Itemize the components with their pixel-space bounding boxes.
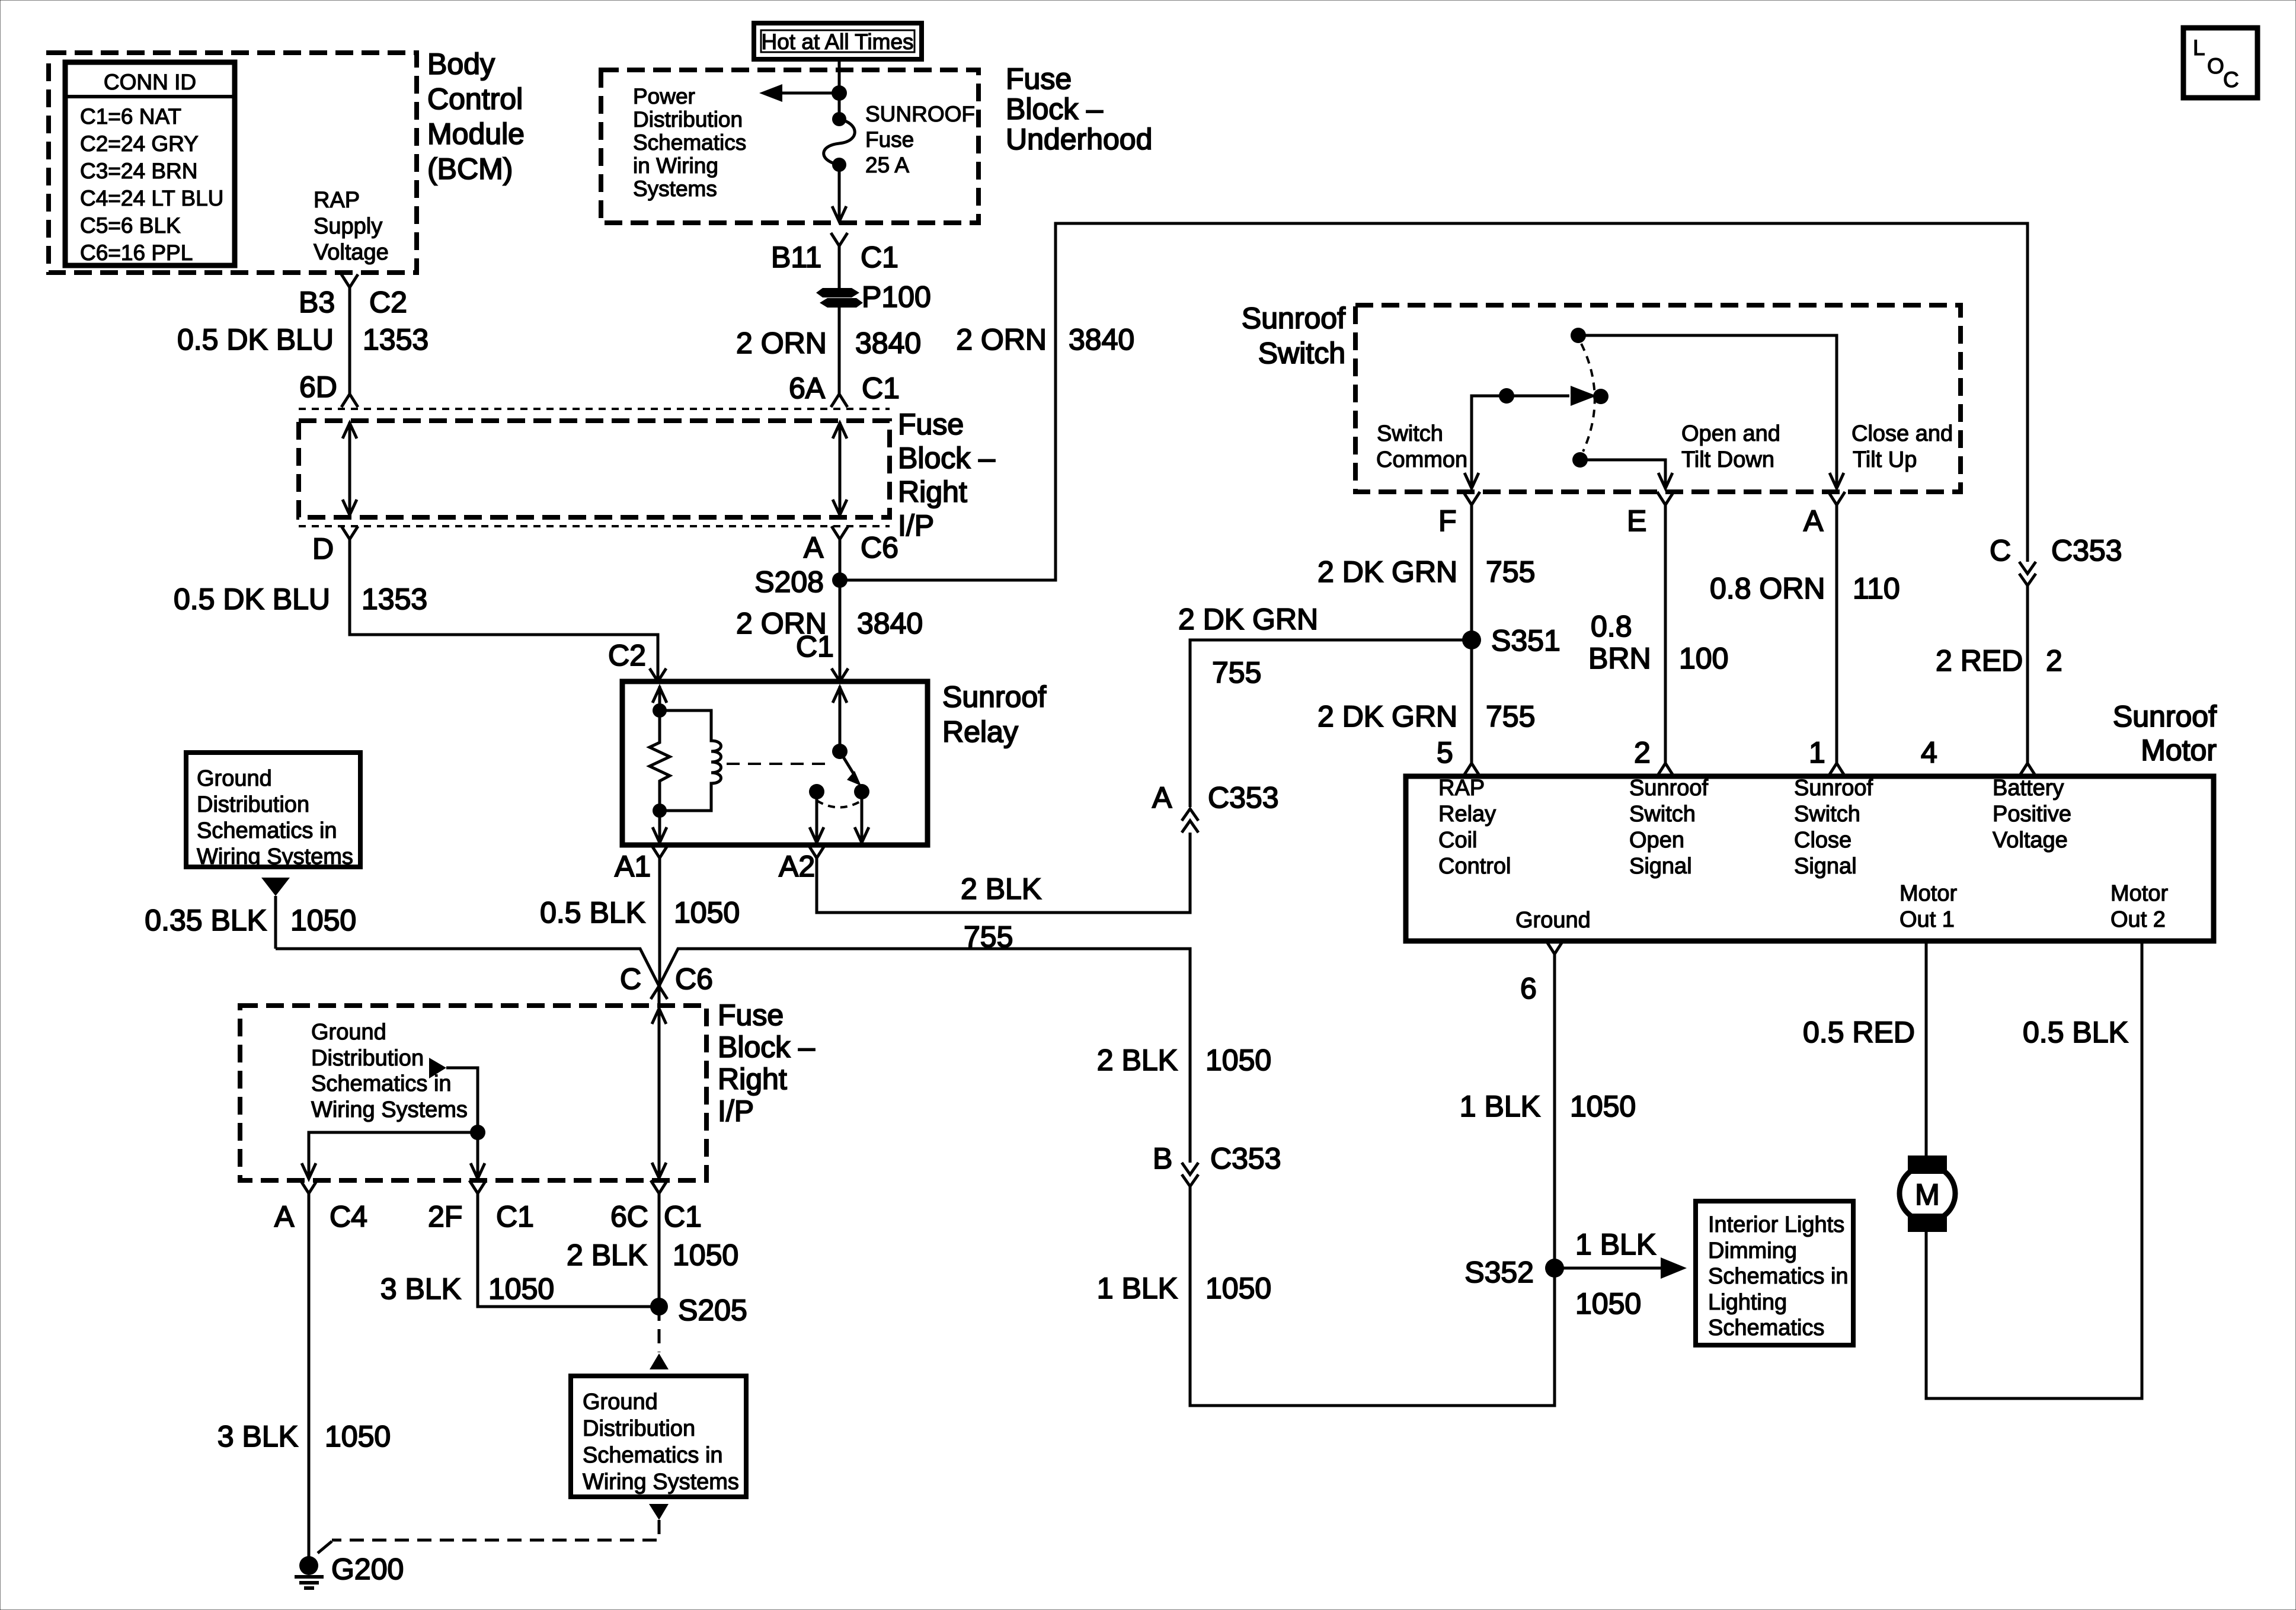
label 1050 [1575,1287,1641,1320]
svg-text:3840: 3840 [1069,323,1134,356]
svg-text:Supply: Supply [314,214,382,239]
svg-text:Tilt Up: Tilt Up [1853,447,1917,472]
svg-text:1050: 1050 [1570,1090,1636,1123]
svg-text:Relay: Relay [942,715,1018,748]
svg-text:C: C [2223,68,2239,92]
svg-text:C1: C1 [796,630,834,663]
svg-text:Close and: Close and [1851,421,1953,446]
wire from Hot box to fuse [838,59,841,119]
connector C353 C double chevron [2019,562,2036,585]
svg-text:2 DK GRN: 2 DK GRN [1318,555,1457,588]
svg-text:I/P: I/P [898,509,934,542]
svg-text:Fuse: Fuse [898,408,964,441]
svg-text:1050: 1050 [488,1272,554,1305]
relay coil [660,710,721,811]
label 2 ORN (branch) [956,323,1047,356]
label 3840 [857,607,923,640]
svg-text:C2: C2 [608,639,646,672]
svg-text:1050: 1050 [290,904,356,937]
svg-text:Relay: Relay [1438,802,1496,827]
connector fork 6C/C1 [651,1180,667,1193]
label C6 [861,531,898,564]
wire C353 C to motor pin 4 [2026,585,2029,763]
svg-text:6A: 6A [789,372,826,405]
CONN ID header label [104,70,196,94]
label A2 [779,850,815,883]
Fuse Block Right I/P title [898,408,995,542]
svg-text:Sunroof: Sunroof [1794,776,1873,801]
relay contact left [809,784,824,799]
label 1050 [674,896,740,929]
label 0.5 BLK [2023,1016,2128,1049]
svg-text:6D: 6D [299,370,337,404]
connector fork B3/C2 at BCM bottom [341,274,358,287]
label 755 [1486,555,1535,588]
label B (C353) [1153,1142,1172,1175]
svg-text:Voltage: Voltage [1993,828,2068,853]
label A (C353) [1152,781,1172,814]
connector fork F [1463,492,1480,505]
fuse block ground bus internal wire (C to 6C) [652,986,666,1179]
wire C353 B down to motor ground return [1190,954,1555,1406]
svg-text:C2: C2 [369,286,407,319]
internal ground wire to 2F [446,1068,485,1179]
Sunroof Switch dashed box [1355,305,1961,492]
label 1050 [290,904,356,937]
svg-text:Module: Module [427,117,525,151]
label 1353 [362,582,427,616]
Sunroof Relay title [942,680,1046,748]
label 755 (S351 branch) [1212,656,1261,689]
Body Control Module (BCM) dashed box [49,53,417,273]
label P100 [862,280,931,313]
svg-text:Positive: Positive [1993,802,2071,827]
svg-text:Common: Common [1376,447,1467,472]
label 1050 [1205,1044,1271,1077]
off-page triangle below lower note box [649,1504,669,1520]
svg-text:Distribution: Distribution [583,1416,695,1441]
svg-text:0.5 RED: 0.5 RED [1803,1016,1915,1049]
svg-text:A: A [1152,781,1172,814]
svg-text:Underhood: Underhood [1006,123,1152,156]
svg-text:Motor: Motor [1900,881,1957,906]
svg-text:Tilt Down: Tilt Down [1681,447,1774,472]
wire A/C4 to G200 [308,1205,311,1557]
label C [1990,534,2011,567]
Ground Distribution note text (upper) [197,766,353,869]
off-page triangle above lower note box [650,1353,669,1369]
label A [274,1200,295,1233]
svg-text:0.35 BLK: 0.35 BLK [145,904,267,937]
svg-text:Schematics in: Schematics in [197,818,337,843]
svg-text:C1: C1 [496,1200,534,1233]
svg-text:0.5 DK BLU: 0.5 DK BLU [177,323,334,356]
label 3 BLK [218,1420,298,1453]
label C353 [1210,1142,1281,1175]
svg-text:2: 2 [1634,736,1651,769]
label C353 [2051,534,2122,567]
LOC letters [2193,36,2239,92]
connector fork 6D at fuse block top [341,394,358,407]
svg-text:A2: A2 [779,850,815,883]
label 1050 [325,1420,391,1453]
svg-text:3840: 3840 [857,607,923,640]
svg-text:Fuse: Fuse [865,127,914,152]
CONN ID table box [65,62,235,265]
svg-text:RAP: RAP [1438,776,1485,801]
label 2 [1634,736,1651,769]
junction S352 [1545,1259,1564,1278]
junction S205 [650,1298,668,1315]
wire S208 branch right and up to C353 C [840,223,2028,580]
label 1 BLK [1097,1272,1178,1305]
motor M symbol [1900,1156,1955,1232]
svg-text:C353: C353 [2051,534,2122,567]
svg-text:M: M [1915,1178,1940,1211]
label 755 [964,920,1013,953]
wire 0.35 BLK stub [274,896,277,949]
svg-text:1 BLK: 1 BLK [1460,1090,1540,1123]
wire open contact to pin E [1580,460,1673,488]
label S351 [1491,624,1560,657]
Ground Distribution note box (lower) [571,1376,746,1497]
svg-text:Fuse: Fuse [1006,62,1072,95]
svg-text:2F: 2F [428,1200,462,1233]
svg-text:L: L [2193,36,2205,60]
junction S351 [1462,630,1481,649]
svg-text:1050: 1050 [1575,1287,1641,1320]
svg-text:C2=24 GRY: C2=24 GRY [80,132,199,156]
svg-text:Battery: Battery [1993,776,2064,801]
svg-text:B3: B3 [299,286,335,319]
label 1 BLK [1460,1090,1540,1123]
connector fork 6A at fuse block top [831,394,848,407]
label F [1438,504,1457,537]
svg-text:Control: Control [1438,854,1511,879]
wire P100 to 6A [838,306,841,394]
svg-text:in Wiring: in Wiring [633,153,718,178]
switch common wire with arrow [1464,386,1597,488]
svg-text:2 DK GRN: 2 DK GRN [1318,700,1457,733]
svg-text:Right: Right [718,1062,787,1096]
label A [804,531,824,564]
label 2 BLK [961,872,1041,905]
label S352 [1464,1256,1534,1289]
Fuse Block Underhood title [1006,62,1152,156]
svg-text:Lighting: Lighting [1708,1290,1787,1315]
wire to power distribution arrow [759,84,839,102]
label 1050 [488,1272,554,1305]
label 2 DK GRN [1318,555,1457,588]
label 6 [1520,972,1537,1005]
wire close contact to pin A [1578,335,1844,488]
label S208 [754,565,824,598]
connector fork 2F/C1 [469,1180,486,1193]
switch common junction [1499,388,1514,404]
wire A/C6 to relay C1 [839,539,842,681]
switch open contact node [1572,452,1588,468]
connector C353 A double chevron [1182,809,1198,833]
motor Out 1 label [1900,881,1957,932]
Fuse Block Right I/P lower dashed box [240,1006,706,1180]
svg-text:S208: S208 [754,565,824,598]
RAP Supply Voltage pin label [314,188,389,265]
relay armature arrow [840,751,861,786]
internal ground junction [470,1125,485,1140]
Hot at All Times label [761,30,913,54]
relay coil pin entry arrow [653,686,667,710]
label 3840 [855,327,921,360]
svg-text:S352: S352 [1464,1256,1534,1289]
svg-text:2 RED: 2 RED [1936,644,2023,677]
svg-text:0.5 BLK: 0.5 BLK [540,896,645,929]
connector fork C1 at relay top [832,668,848,681]
connector fork motor pin 1 [1828,763,1845,776]
off-page triangle below note box [261,878,290,896]
svg-text:2 ORN: 2 ORN [736,327,827,360]
label 755 [1486,700,1535,733]
label 0.5 DK BLU [177,323,334,356]
svg-text:C4=24 LT BLU: C4=24 LT BLU [80,186,223,210]
Ground Distribution note box (upper) [186,753,360,867]
svg-text:C6: C6 [675,962,713,996]
label 0.5 DK BLU [174,582,330,616]
Sunroof Relay box [622,681,928,845]
junction S208 [832,572,848,588]
svg-text:Power: Power [633,84,695,108]
svg-text:S205: S205 [678,1294,747,1327]
svg-text:4: 4 [1921,736,1937,769]
motor pin labels column 3 [1794,776,1873,879]
svg-text:A: A [804,531,824,564]
connector fork motor pin 2 [1657,763,1674,776]
svg-text:Sunroof: Sunroof [942,680,1046,713]
svg-text:B11: B11 [771,241,821,274]
connector fork A [1828,492,1845,505]
svg-text:Wiring Systems: Wiring Systems [197,844,353,869]
label 0.5 BLK [540,896,645,929]
svg-text:3 BLK: 3 BLK [380,1272,461,1305]
thin connector line at fuse block top [299,408,890,410]
svg-text:1 BLK: 1 BLK [1097,1272,1178,1305]
label 6C [610,1200,648,1233]
label E [1627,504,1646,537]
label 100 [1679,642,1728,675]
label 110 [1853,572,1900,605]
svg-text:SUNROOF: SUNROOF [865,102,975,126]
svg-text:25 A: 25 A [865,153,909,177]
connector fork A/C6 [832,526,848,539]
svg-text:755: 755 [1212,656,1261,689]
svg-text:C353: C353 [1210,1142,1281,1175]
switch pole node [1593,389,1609,404]
fuse block internal wire left (6D to D) [343,422,357,516]
svg-text:1 BLK: 1 BLK [1575,1228,1656,1261]
label C6 [675,962,713,996]
off-page triangle inside lower fuse block [429,1058,446,1078]
svg-text:3840: 3840 [855,327,921,360]
svg-text:Schematics in: Schematics in [583,1443,723,1468]
wire 6C to S205 [658,1193,661,1307]
svg-text:Hot at All Times: Hot at All Times [761,30,913,54]
relay coil node bottom [653,804,667,818]
label 0.8 ORN [1710,572,1825,605]
Fuse Block Right I/P dashed box [299,421,890,517]
Hot at All Times box [754,23,922,59]
LOC box [2183,28,2257,98]
label C4 [330,1200,367,1233]
svg-text:C: C [1990,534,2011,567]
motor pin labels column 4 [1993,776,2071,853]
label 0.8 BRN [1588,610,1651,675]
svg-text:C1: C1 [861,241,898,274]
label Open and Tilt Down [1681,421,1780,472]
label 2 [2046,644,2062,677]
wire S352 to interior lights note [1555,1257,1687,1279]
svg-text:Close: Close [1794,828,1851,853]
svg-text:S351: S351 [1491,624,1560,657]
svg-text:A: A [1803,504,1824,537]
connector fork C2 at relay top [650,668,666,681]
svg-text:1353: 1353 [363,323,428,356]
svg-text:C6=16 PPL: C6=16 PPL [80,241,193,265]
label 5 [1437,736,1453,769]
svg-text:Sunroof: Sunroof [2113,700,2217,733]
label 2 BLK [567,1238,647,1272]
connector fork A2 [808,845,825,858]
svg-text:Open and: Open and [1681,421,1780,446]
label B3 [299,286,335,319]
svg-text:BRN: BRN [1588,642,1651,675]
svg-text:Interior Lights: Interior Lights [1708,1212,1844,1237]
relay actuation dashed link [727,763,833,765]
label 3840 (branch) [1069,323,1134,356]
svg-text:I/P: I/P [718,1094,754,1128]
wire fuse to B11 with exit arrow [832,165,846,222]
svg-text:Motor: Motor [2110,881,2168,906]
svg-text:0.8: 0.8 [1591,610,1632,643]
Ground Distribution note text (lower) [583,1390,739,1494]
svg-text:CONN ID: CONN ID [104,70,196,94]
svg-text:1050: 1050 [674,896,740,929]
svg-text:C3=24 BRN: C3=24 BRN [80,159,197,183]
label 6A [789,372,826,405]
svg-text:2 DK GRN: 2 DK GRN [1178,603,1318,636]
svg-text:1353: 1353 [362,582,427,616]
BCM title [427,47,525,185]
svg-text:Signal: Signal [1794,854,1857,879]
label D [312,532,334,565]
svg-text:C: C [620,962,641,996]
svg-text:1050: 1050 [1205,1044,1271,1077]
label B11 [771,241,821,274]
svg-text:P100: P100 [862,280,931,313]
svg-text:Switch: Switch [1629,802,1696,827]
dashed link note box to G200 [318,1520,659,1553]
Interior Lights note text [1708,1212,1849,1340]
svg-text:Ground: Ground [1515,908,1591,933]
ground G200 symbol [295,1556,324,1588]
svg-text:110: 110 [1853,572,1900,605]
connector fork motor pin 4 [2019,763,2036,776]
junction above fuse [832,85,847,101]
wire A2 to C353 A [817,833,1190,913]
wire A1 to ground bus [658,858,661,986]
label 4 [1921,736,1937,769]
Power Distribution note [633,84,746,201]
svg-text:Ground: Ground [197,766,272,791]
svg-text:2: 2 [2046,644,2062,677]
wire B3/C2 to 6D [348,287,351,394]
label 3 BLK [380,1272,461,1305]
svg-text:Right: Right [898,475,967,508]
connector fork D [341,526,358,539]
svg-text:Out 1: Out 1 [1900,907,1955,932]
svg-text:Body: Body [427,47,495,81]
label 6D [299,370,337,404]
svg-text:Out 2: Out 2 [2110,907,2166,932]
wire F to motor pin 5 [1470,505,1473,763]
label 0.35 BLK [145,904,267,937]
svg-text:Switch: Switch [1258,337,1345,370]
svg-text:1: 1 [1809,736,1825,769]
relay coil exit arrow to A1 [653,811,667,844]
SUNROOF fuse 25A symbol [824,112,855,172]
svg-text:C1=6 NAT: C1=6 NAT [80,104,181,129]
Sunroof Motor title [2113,700,2217,767]
svg-text:Control: Control [427,82,523,116]
svg-text:1050: 1050 [1205,1272,1271,1305]
wire A to motor pin 1 [1835,505,1838,763]
connector fork B11/C1 [831,233,848,288]
ground bus wire [276,949,1190,1163]
label C1 [664,1200,702,1233]
motor Out 2 label [2110,881,2168,932]
svg-text:Sunroof: Sunroof [1629,776,1709,801]
svg-text:0.8 ORN: 0.8 ORN [1710,572,1825,605]
relay switch common node [832,744,848,759]
svg-text:Fuse: Fuse [718,998,784,1032]
connector fork A/C4 [300,1180,317,1205]
Interior Lights note box [1696,1201,1853,1345]
label C2 [369,286,407,319]
relay contact left wire to A2 [810,792,824,844]
label A [1803,504,1824,537]
svg-text:E: E [1627,504,1646,537]
switch close contact node [1571,328,1586,343]
label 0.5 RED [1803,1016,1915,1049]
Ground Distribution note text (lower box) [311,1020,468,1122]
label 1050 [1205,1272,1271,1305]
svg-text:Ground: Ground [583,1390,658,1414]
connector fork A1 [651,845,668,858]
svg-text:Wiring Systems: Wiring Systems [311,1097,468,1122]
svg-text:Dimming: Dimming [1708,1238,1797,1263]
svg-text:5: 5 [1437,736,1453,769]
svg-text:Sunroof: Sunroof [1242,302,1345,335]
svg-text:C5=6 BLK: C5=6 BLK [80,213,181,238]
label C1 [861,241,898,274]
svg-text:Ground: Ground [311,1020,386,1045]
svg-text:G200: G200 [331,1553,404,1586]
svg-text:0.5 DK BLU: 0.5 DK BLU [174,582,330,616]
label 2F [428,1200,462,1233]
svg-text:100: 100 [1679,642,1728,675]
label 2 DK GRN [1318,700,1457,733]
relay contact right [854,784,869,799]
relay switch pin entry arrow [833,686,847,751]
svg-text:F: F [1438,504,1457,537]
